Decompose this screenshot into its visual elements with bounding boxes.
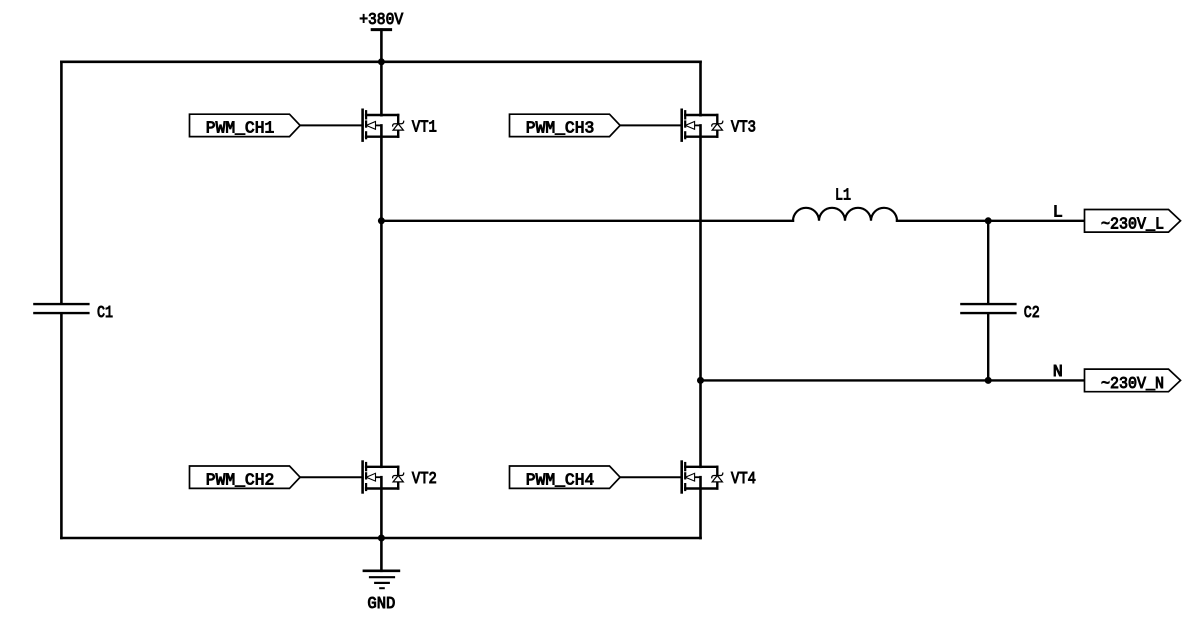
wire GND stem [380, 538, 383, 571]
wire L1 to output L [897, 220, 1085, 222]
svg-text:~230V_L: ~230V_L [1101, 215, 1164, 234]
svg-text:~230V_N: ~230V_N [1101, 375, 1164, 394]
ground symbol [364, 571, 399, 588]
svg-text:PWM_CH1: PWM_CH1 [206, 120, 274, 139]
wire PWM_CH2 to VT2 gate [300, 476, 363, 478]
power port +380V bar [372, 28, 390, 31]
svg-text:PWM_CH2: PWM_CH2 [206, 471, 274, 490]
net label PWM_CH1 [190, 114, 301, 136]
svg-text:PWM_CH4: PWM_CH4 [526, 471, 595, 490]
wire PWM_CH3 to VT3 gate [620, 124, 682, 126]
svg-text:L: L [1053, 203, 1063, 222]
svg-text:L1: L1 [835, 187, 851, 206]
wire N line [701, 379, 1085, 381]
svg-text:VT1: VT1 [412, 118, 437, 137]
junction C2 top [985, 217, 992, 224]
inductor L1 [793, 208, 897, 221]
net label PWM_CH2 [190, 466, 301, 488]
junction bottom rail GND tap [378, 535, 385, 542]
svg-text:GND: GND [367, 595, 395, 614]
transistor VT3 [682, 110, 723, 141]
wire phase A to L1 [381, 220, 793, 222]
wire C2 lower stem [987, 314, 989, 380]
wire bottom rail [61, 537, 700, 540]
svg-text:VT4: VT4 [731, 470, 756, 489]
port ~230V_L [1085, 210, 1181, 233]
wire PWM_CH1 to VT1 gate [300, 124, 363, 126]
wire VT4 source to bottom rail [699, 477, 702, 538]
svg-text:VT3: VT3 [731, 118, 756, 137]
wire VT1 source to mid node [380, 125, 383, 220]
net label PWM_CH3 [510, 114, 621, 136]
wire VT2 drain [380, 221, 383, 467]
wire +380V stem [380, 30, 383, 62]
svg-text:N: N [1053, 363, 1063, 382]
junction phase A node [378, 217, 385, 224]
net label PWM_CH4 [510, 466, 621, 488]
wire VT2 source to bottom rail [380, 477, 383, 538]
transistor VT1 [363, 110, 404, 141]
junction +380V rail [378, 58, 385, 65]
transistor VT4 [682, 462, 723, 493]
wire PWM_CH4 to VT4 gate [620, 476, 682, 478]
capacitor C2 [961, 303, 1015, 305]
svg-text:C2: C2 [1024, 304, 1040, 323]
wire VT1 drain [380, 62, 383, 115]
wire left rail upper [60, 62, 63, 303]
wire top rail [61, 60, 700, 63]
wire C2 upper stem [987, 221, 989, 303]
svg-text:+380V: +380V [359, 11, 403, 30]
wire VT3 drain [699, 62, 702, 115]
junction phase B node [697, 377, 704, 384]
svg-text:C1: C1 [97, 304, 113, 323]
port ~230V_N [1085, 369, 1181, 392]
junction C2 bottom [985, 377, 992, 384]
capacitor C1 [34, 303, 88, 305]
svg-text:PWM_CH3: PWM_CH3 [526, 120, 595, 139]
svg-text:VT2: VT2 [412, 470, 437, 489]
transistor VT2 [363, 462, 404, 493]
wire VT3 source to VT4 drain [699, 125, 702, 466]
wire left rail lower [60, 314, 63, 538]
